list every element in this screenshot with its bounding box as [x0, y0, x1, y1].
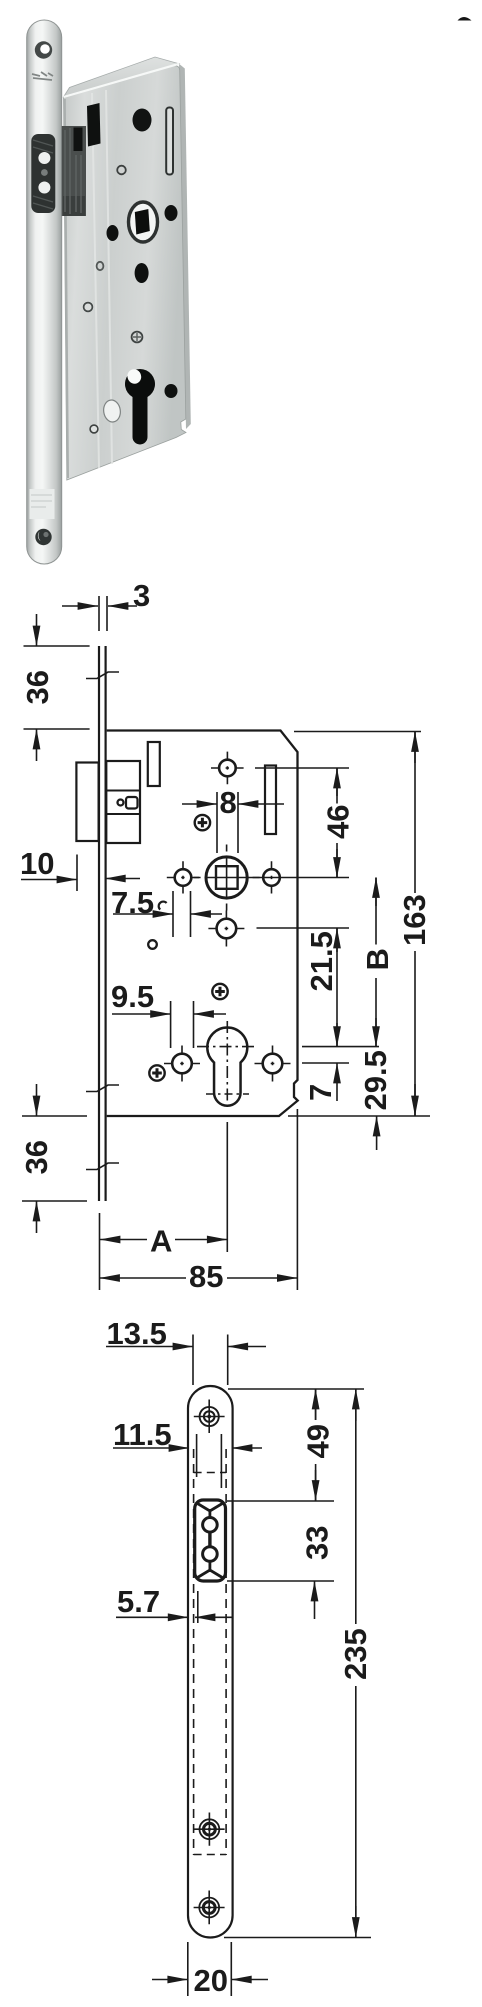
case bottom ext line right: [288, 1115, 430, 1117]
photo faceplate bottom screw hole: [35, 529, 51, 545]
photo lock case right side face: [179, 64, 191, 429]
svg-text:163: 163: [397, 894, 432, 946]
latch bolt protruding block: [76, 763, 98, 842]
photo small screw ring: [117, 166, 126, 175]
dim A line+arrows: [100, 1239, 147, 1241]
photo hole left of follower: [107, 225, 119, 241]
dim 8 arrows: [182, 803, 217, 805]
dim 20 ext lines: [188, 1942, 232, 1996]
cylinder flank hole left: [172, 1054, 192, 1074]
hole left of follower: [175, 869, 192, 886]
dim 49 line+arrows: [315, 1389, 317, 1501]
small hook mark: [159, 902, 167, 910]
small plain circle: [148, 940, 157, 949]
latch detail small square: [126, 797, 138, 809]
dim 7.5 arrows: [113, 913, 173, 915]
bottom screw hole: [199, 1898, 219, 1918]
svg-text:36: 36: [20, 670, 55, 704]
dim 85 ext line right: [296, 1109, 298, 1290]
dim 11.5 arrows: [113, 1447, 189, 1449]
svg-text:36: 36: [19, 1140, 54, 1174]
ext line follower centre to 46 dim: [248, 877, 349, 879]
svg-text:5.7: 5.7: [117, 1584, 160, 1619]
dim 36 bottom ext lines: [22, 1116, 87, 1201]
photo case slot hole top-left: [87, 103, 101, 147]
svg-text:7: 7: [303, 1084, 338, 1101]
svg-text:A: A: [150, 1224, 172, 1259]
photo lock case front face: [64, 66, 187, 480]
svg-text:8: 8: [220, 785, 237, 820]
lock case outline: [107, 731, 298, 1117]
svg-text:3: 3: [133, 578, 150, 613]
photo small arc mark at left edge: [97, 262, 104, 270]
latch cutout outline: [195, 1500, 226, 1581]
top hole: [219, 760, 236, 777]
hole right of follower: [263, 869, 280, 886]
euro cylinder profile: [207, 1028, 247, 1106]
follower (square hub): [206, 857, 247, 898]
photo small screw center: [132, 332, 143, 343]
latch assembly inside case: [106, 761, 140, 843]
dim 13.5 arrows: [106, 1346, 193, 1348]
dim 7 arrow: [336, 1063, 338, 1101]
dim 7.5 ext lines: [173, 891, 191, 937]
dim 36 bottom arrows: [36, 1084, 38, 1116]
svg-text:B: B: [360, 948, 395, 970]
dim 85 line+arrows: [100, 1277, 187, 1279]
dim 29.5 bottom arrow: [376, 1116, 378, 1150]
photo faceplate logo stamp: [32, 72, 53, 80]
dim 163 line+arrows: [414, 732, 416, 1117]
photo hole below follower: [135, 263, 149, 283]
svg-text:49: 49: [301, 1424, 336, 1458]
svg-text:235: 235: [338, 1628, 373, 1680]
dim 13.5 ext lines: [193, 1335, 228, 1386]
faceplate break mark top: [86, 672, 119, 679]
photo lock case top face: [64, 57, 180, 97]
svg-text:13.5: 13.5: [107, 1316, 167, 1351]
ext line cylinder centre right: [302, 1046, 379, 1048]
dim 21.5 line+arrows: [336, 928, 338, 1047]
dim 11.5 ext lines: [197, 1434, 222, 1488]
ext line 7 (below cylinder centre): [302, 1062, 349, 1064]
svg-text:33: 33: [300, 1526, 335, 1560]
dim 46 line+arrows: [336, 768, 338, 878]
svg-text:11.5: 11.5: [113, 1417, 172, 1452]
dim 235 line+arrows: [355, 1389, 357, 1938]
svg-text:29.5: 29.5: [358, 1050, 393, 1110]
photo hole right of cylinder: [165, 384, 178, 398]
hidden lock case (dashed) left edge: [193, 1449, 195, 1855]
faceplate edge (two vertical lines): [99, 646, 106, 1201]
dim 20 arrows: [152, 1979, 188, 1981]
dim 33 bottom arrow: [314, 1581, 316, 1619]
page corner blob: [458, 17, 472, 21]
dim 36 top ext lines: [24, 646, 90, 729]
ext line hole centre to 21.5 dim: [257, 927, 350, 929]
faceplate break mark lower2: [86, 1163, 119, 1170]
dim B line+arrows: [375, 878, 377, 1047]
photo light oval hole: [102, 399, 122, 423]
latch cutout top V: [198, 1504, 223, 1520]
dim 5.7 ext line: [197, 1591, 199, 1623]
svg-text:7.5: 7.5: [111, 885, 154, 920]
cylinder flank hole right: [263, 1054, 283, 1074]
photo case top hole: [133, 109, 152, 132]
dim 3 arrows: [62, 605, 98, 607]
screw symbol mid: [212, 984, 227, 999]
photo latch housing block behind plate: [62, 126, 86, 216]
hidden lock case (dashed) top edge: [194, 1472, 227, 1474]
narrow slot right: [265, 766, 276, 835]
svg-text:46: 46: [321, 805, 356, 839]
right ext lines (49/33/235): [228, 1388, 364, 1390]
photo euro cylinder keyhole: [125, 369, 155, 444]
photo case slot right (outlined): [166, 108, 173, 175]
photo faceplate label sticker: [30, 489, 55, 519]
photo faceplate top screw hole: [35, 41, 52, 58]
ext line top hole centre: [255, 767, 349, 769]
photo small screw ring lower-left: [90, 425, 98, 433]
hidden lock case (dashed) right edge: [225, 1449, 227, 1855]
dim 36 top arrows: [36, 614, 38, 646]
latch cutout bottom V: [198, 1560, 223, 1578]
dim 10 ext line: [76, 855, 78, 892]
narrow slot left: [148, 742, 160, 786]
hidden lock case (dashed) bottom edge: [194, 1854, 227, 1856]
latch detail small circle: [118, 800, 124, 806]
dim 3 ticks: [99, 596, 107, 631]
dim A ext lines: [100, 1122, 228, 1290]
svg-text:10: 10: [20, 846, 54, 881]
dim 9.5 ext lines: [171, 1001, 194, 1048]
svg-text:20: 20: [194, 1963, 228, 1998]
dim 9.5 arrows: [112, 1013, 171, 1015]
photo roller latch on plate: [31, 134, 55, 213]
mid screw hole: [200, 1819, 220, 1839]
faceplate break mark lower1: [86, 1085, 119, 1092]
dim 8 extension lines: [217, 792, 238, 853]
case top ext line right: [294, 731, 421, 733]
latch cutout roller circles: [203, 1518, 218, 1533]
photo small screw mid-left: [84, 303, 93, 312]
photo hole right of follower: [165, 205, 178, 221]
hole below follower: [217, 919, 237, 939]
cylinder centrelines (dash-dot): [226, 1021, 228, 1111]
svg-text:21.5: 21.5: [304, 931, 339, 991]
top screw hole: [200, 1407, 219, 1426]
dim 10 arrows: [21, 879, 77, 881]
screw symbol upper: [195, 815, 210, 830]
photo faceplate (stadium plate): [27, 20, 62, 564]
svg-text:9.5: 9.5: [111, 979, 154, 1014]
faceplate outline: [188, 1386, 233, 1938]
svg-text:85: 85: [189, 1259, 223, 1294]
photo follower (square spindle hub): [129, 202, 158, 242]
screw symbol lower-left: [149, 1065, 164, 1080]
dim 5.7 arrows: [116, 1616, 188, 1618]
